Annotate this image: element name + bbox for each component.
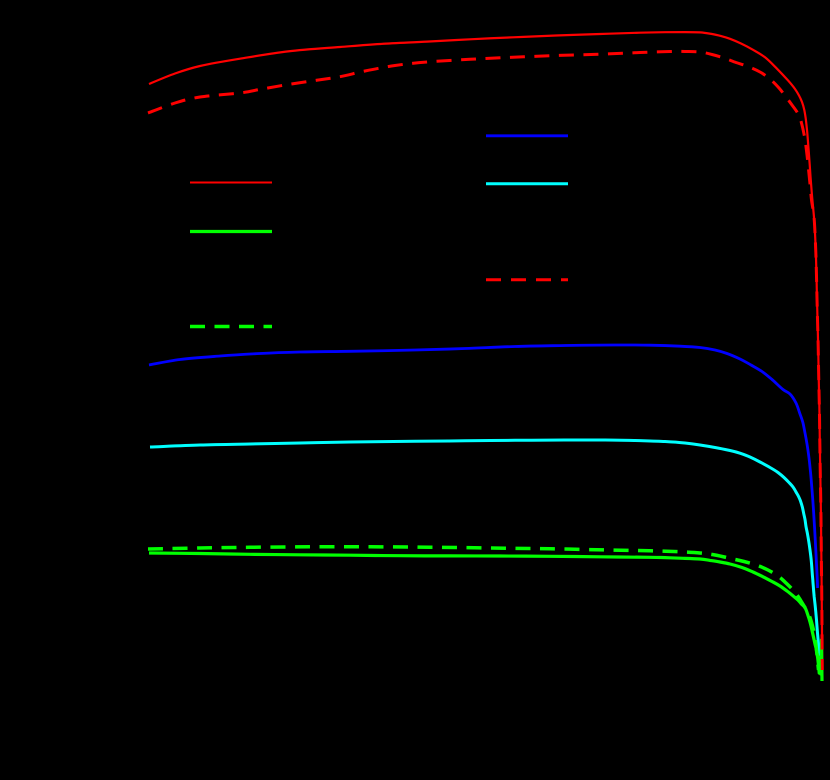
curve green solid — [149, 553, 822, 681]
legend sample red solid (left column row 1) — [190, 182, 272, 184]
legend sample cyan solid (right column row 2) — [486, 182, 568, 185]
curve red solid (top J-V curve) — [149, 32, 822, 670]
legend sample green dashed (left column row 3) — [190, 325, 272, 329]
curve cyan solid — [150, 440, 821, 666]
legend sample blue solid (right column row 1) — [486, 134, 568, 137]
curve blue solid — [149, 345, 818, 588]
legend sample red dashed (right column row 3) — [486, 278, 568, 281]
curve red dashed (top dashed J-V curve) — [148, 51, 822, 670]
legend sample green solid (left column row 2) — [190, 230, 272, 233]
curve green dashed — [148, 547, 819, 670]
